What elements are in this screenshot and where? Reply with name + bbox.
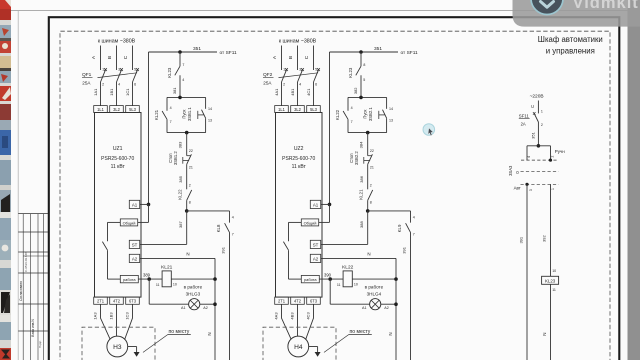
svg-text:ST: ST (313, 243, 319, 248)
svg-text:N: N (542, 333, 547, 336)
svg-text:и управления: и управления (546, 46, 595, 55)
terminal 4Т2 of UZ1 (110, 297, 124, 304)
terminal A2 of UZ1 (129, 254, 139, 262)
relay contact KL23 pins 8-5 (348, 52, 366, 97)
svg-text:~220В: ~220В (530, 94, 544, 100)
net N rail down to bottom (388, 258, 396, 360)
svg-text:4А3: 4А3 (274, 312, 279, 320)
svg-text:KL8: KL8 (216, 224, 221, 232)
node junction 351 / KL23 branch (178, 50, 182, 54)
dashed local enclosure around motor Н3 (82, 327, 155, 360)
terminal работа of UZ2 (301, 275, 319, 282)
node junction lamp to N rail (394, 302, 398, 306)
svg-text:С: С (304, 55, 310, 59)
svg-text:7: 7 (413, 232, 415, 236)
svg-text:1: 1 (102, 67, 104, 71)
svg-text:11 кВт: 11 кВт (292, 164, 307, 170)
wire 351 drop to A1/Общий of UZ2 (319, 52, 332, 222)
svg-text:Vidmkit: Vidmkit (573, 0, 639, 12)
viewer top edge line (11, 10, 640, 12)
stamp rotated text Согласовано (19, 281, 23, 301)
wire 386 stop button to KL21 (359, 164, 372, 189)
svg-text:С: С (123, 55, 129, 59)
wire 351 horizontal bus (от SF11) for UZ2 (330, 46, 419, 56)
motor Н3 (107, 336, 128, 357)
wire 391 from selector contact down (518, 184, 527, 360)
relay contact KL9 pins 4-7 (397, 211, 415, 237)
svg-text:N: N (388, 332, 393, 335)
wire phase А from 380V bus to QF2 pin 1 (272, 46, 285, 72)
wire 1С1 from QF1 pin 6 to UZ1 (125, 82, 136, 106)
title block side table (18, 214, 48, 360)
node junction 351 / KL23 branch (359, 50, 363, 54)
svg-text:2Т1: 2Т1 (278, 299, 286, 304)
terminal 5L3 of UZ2 (307, 106, 321, 113)
svg-text:381: 381 (172, 87, 177, 94)
wire phase С from 380V bus to QF1 pin 5 (123, 46, 136, 72)
wire phase В from 380V bus to QF1 pin 3 (107, 46, 120, 72)
svg-text:2: 2 (283, 82, 285, 86)
svg-text:3L2: 3L2 (113, 107, 121, 112)
svg-text:14: 14 (389, 107, 393, 111)
wire N from A2 terminal (140, 252, 215, 259)
svg-text:А1: А1 (181, 306, 186, 310)
svg-text:от SF11: от SF11 (401, 50, 419, 56)
svg-text:391: 391 (221, 246, 226, 253)
svg-text:351: 351 (531, 131, 536, 138)
selector switch 3SA3 common bar (527, 146, 555, 160)
internal run contact of UZ2 (Общий-работа) (283, 222, 301, 279)
svg-text:3HLG4: 3HLG4 (367, 291, 382, 296)
svg-text:383: 383 (178, 141, 183, 148)
svg-text:В: В (107, 56, 113, 59)
motor Н4 (288, 336, 309, 357)
svg-text:3HLG3: 3HLG3 (186, 291, 201, 296)
svg-text:4С3: 4С3 (306, 312, 311, 320)
svg-text:KL9: KL9 (397, 224, 402, 232)
svg-text:1L1: 1L1 (97, 107, 105, 112)
svg-text:6Т3: 6Т3 (129, 299, 137, 304)
svg-text:1В1: 1В1 (109, 88, 114, 96)
mouse cursor with highlight ring (423, 124, 435, 136)
wire phase В from 380V bus to QF2 pin 3 (288, 46, 301, 72)
wire 389 from работа terminal (138, 273, 162, 280)
watermark text Vidmkit (cut off at top) (573, 0, 639, 12)
relay contact KL21 pins 2-8 (359, 189, 373, 211)
svg-text:4В1: 4В1 (290, 88, 295, 96)
svg-text:2: 2 (370, 184, 372, 188)
wire phase C to SF11 (530, 101, 543, 114)
node junction lamp to N rail (213, 302, 217, 306)
wire 1С3 to motor Н3 (125, 304, 133, 339)
svg-text:6: 6 (134, 82, 136, 86)
svg-text:387: 387 (178, 220, 183, 227)
svg-text:N: N (186, 252, 189, 257)
svg-text:1L1: 1L1 (278, 107, 286, 112)
wire N from KL23 coil down (542, 284, 550, 360)
svg-text:7: 7 (182, 63, 184, 67)
svg-text:4В3: 4В3 (290, 312, 295, 320)
wire 392 from selector to KL23 coil (541, 184, 556, 276)
svg-text:к шинам ~380В: к шинам ~380В (279, 38, 317, 44)
terminal 1L1 of UZ2 (275, 106, 289, 113)
svg-text:Н3: Н3 (113, 344, 122, 351)
svg-text:3: 3 (529, 189, 533, 191)
wire 1В3 to motor Н3 (109, 304, 117, 336)
wire to relay contact KL9 (368, 210, 411, 212)
terminal A1 of UZ2 (310, 200, 320, 208)
svg-text:4: 4 (182, 78, 184, 82)
svg-text:7: 7 (170, 120, 172, 124)
svg-text:5: 5 (363, 78, 365, 82)
net N rail down to bottom (207, 258, 215, 360)
terminal 3L2 of UZ2 (291, 106, 305, 113)
stamp rotated text Взам инв.N (31, 319, 35, 337)
svg-text:3: 3 (118, 67, 120, 71)
svg-text:KL22: KL22 (335, 109, 340, 120)
wire 1В1 from QF1 pin 4 to UZ1 (109, 82, 120, 106)
svg-text:KL22: KL22 (342, 265, 354, 271)
svg-text:2Т1: 2Т1 (97, 299, 105, 304)
terminal 2Т1 of UZ2 (275, 297, 289, 304)
svg-text:Ручн: Ручн (555, 149, 565, 154)
svg-text:PSR25-600-70: PSR25-600-70 (282, 156, 315, 162)
stop push button Стоп 3SB1.2 pins 22-21 (NC) (168, 151, 193, 170)
wire 387 to ST terminal (140, 211, 187, 245)
svg-text:1С1: 1С1 (125, 88, 130, 96)
ground (protective earth) at motor Н3 (128, 347, 140, 357)
svg-text:8: 8 (189, 201, 191, 205)
relay contact KL8 pins 4-7 (216, 211, 234, 237)
svg-text:по месту: по месту (350, 329, 371, 335)
terminal 3L2 of UZ1 (110, 106, 124, 113)
svg-text:11 кВт: 11 кВт (111, 164, 126, 170)
selector 3SA3 position Авт (dashed) with closed-contact dot (514, 183, 559, 191)
svg-text:11: 11 (156, 283, 160, 287)
video thumbnail strip left edge (0, 0, 11, 360)
node junction stop chain / interlock branch (185, 209, 189, 213)
terminal 6Т3 of UZ1 (126, 297, 140, 304)
svg-text:Н4: Н4 (294, 344, 303, 351)
terminal A2 of UZ2 (310, 254, 320, 262)
svg-text:3SB2.2: 3SB2.2 (354, 151, 359, 165)
terminal работа of UZ1 (120, 275, 138, 282)
svg-text:1: 1 (283, 67, 285, 71)
svg-text:в работе: в работе (184, 284, 203, 289)
svg-text:С-9536.09.848: С-9536.09.848 (24, 252, 28, 272)
net ~220V supply label (530, 94, 544, 100)
wire 351 horizontal bus (от SF11) for UZ1 (149, 46, 238, 56)
svg-text:Взам инв.N: Взам инв.N (31, 319, 35, 337)
wire 382 KL23 to start button group (353, 87, 358, 94)
svg-text:388: 388 (359, 220, 364, 227)
label Шкаф автоматики и управления (538, 35, 603, 55)
svg-text:2: 2 (189, 184, 191, 188)
svg-text:390: 390 (324, 273, 332, 278)
svg-text:5: 5 (315, 67, 317, 71)
svg-text:Общий: Общий (304, 220, 317, 225)
svg-text:392: 392 (541, 234, 546, 241)
dashed local enclosure around motor Н4 (263, 327, 336, 360)
svg-text:A1: A1 (313, 203, 319, 208)
svg-text:6Т3: 6Т3 (310, 299, 318, 304)
cabinet dashed boundary Шкаф автоматики (60, 31, 610, 360)
wire to relay contact KL8 (187, 210, 230, 212)
svg-text:4: 4 (232, 215, 234, 219)
svg-text:UZ1: UZ1 (113, 146, 123, 152)
svg-text:8: 8 (370, 201, 372, 205)
stop push button Стоп 3SB2.2 pins 22-21 (NC) (349, 151, 374, 170)
wire 381 KL23 to start button group (172, 87, 177, 94)
start push button Пуск 3SB2.1 pins 14-13 (363, 97, 393, 132)
svg-text:5L3: 5L3 (310, 107, 318, 112)
svg-text:4: 4 (299, 82, 301, 86)
circuit breaker SF11 2А (519, 112, 543, 127)
relay contact KL22 (seal-in) pins 4-7 (335, 97, 352, 132)
wire 351 drop to A1/Общий of UZ1 (138, 52, 151, 222)
svg-text:Общий: Общий (123, 220, 136, 225)
svg-text:21: 21 (189, 166, 193, 170)
terminal 1L1 of UZ1 (94, 106, 108, 113)
svg-text:351: 351 (193, 46, 201, 52)
svg-text:386: 386 (359, 175, 364, 182)
svg-text:4: 4 (170, 106, 172, 110)
svg-text:385: 385 (178, 175, 183, 182)
svg-text:в работе: в работе (365, 284, 384, 289)
svg-text:21: 21 (370, 166, 374, 170)
start push button Пуск 3SB1.1 pins 14-13 (182, 97, 212, 132)
svg-text:А2: А2 (203, 306, 208, 310)
svg-text:22: 22 (370, 149, 374, 153)
svg-text:4А1: 4А1 (274, 88, 279, 96)
wire 1А1 from QF1 pin 2 to UZ1 (93, 82, 104, 106)
svg-text:А2: А2 (384, 306, 389, 310)
selector 3SA3 position Ручн (dashed) with closed-contact dot (521, 149, 565, 162)
svg-text:Подп.: Подп. (38, 340, 42, 348)
net ~380V bus feed label (QF1 circuit) (98, 38, 136, 44)
svg-text:3SB2.1: 3SB2.1 (368, 107, 373, 121)
ground (protective earth) at motor Н4 (309, 347, 321, 357)
svg-text:4Т2: 4Т2 (294, 299, 302, 304)
net ~380V bus feed label (QF2 circuit) (279, 38, 317, 44)
svg-text:N: N (207, 332, 212, 335)
wire 1А3 to motor Н3 (93, 304, 111, 339)
svg-text:351: 351 (374, 46, 382, 52)
svg-text:1: 1 (551, 188, 555, 190)
svg-text:Авт: Авт (514, 185, 521, 190)
label по месту with leader (324, 329, 372, 353)
stamp rotated text document number (24, 252, 28, 272)
terminal 2Т1 of UZ1 (94, 297, 108, 304)
svg-text:1В3: 1В3 (109, 312, 114, 320)
svg-text:4Т2: 4Т2 (113, 299, 121, 304)
relay coil KL21 pins 11-10 (156, 265, 215, 287)
terminal 6Т3 of UZ2 (307, 297, 321, 304)
svg-text:A2: A2 (132, 257, 138, 262)
wire 388 to ST terminal (321, 211, 368, 245)
relay contact KL23 pins 7-4 (167, 52, 185, 97)
svg-text:11: 11 (337, 283, 341, 287)
svg-text:по месту: по месту (169, 329, 190, 335)
svg-text:2А: 2А (521, 121, 526, 126)
svg-text:KL23: KL23 (348, 67, 353, 78)
stamp rotated text Подп. и дата (38, 340, 42, 348)
svg-text:1А1: 1А1 (93, 88, 98, 96)
svg-text:KL21: KL21 (154, 109, 159, 120)
svg-text:3SB1.1: 3SB1.1 (187, 107, 192, 121)
node top of start parallel group (167, 96, 206, 100)
svg-text:В: В (288, 56, 294, 59)
svg-text:3SB1.2: 3SB1.2 (173, 151, 178, 165)
node junction работа / lamp branch (328, 277, 332, 281)
svg-text:UZ2: UZ2 (294, 146, 304, 152)
node top of start parallel group (348, 96, 387, 100)
svg-text:KL23: KL23 (545, 279, 556, 284)
svg-text:KL21: KL21 (161, 265, 173, 271)
wire 385 stop button to KL22 (178, 164, 191, 189)
selector 3SA3 label and position 0 (508, 165, 559, 176)
terminal ST of UZ2 (310, 240, 320, 248)
svg-text:4: 4 (413, 215, 415, 219)
svg-text:2: 2 (550, 156, 554, 158)
svg-text:10: 10 (173, 283, 177, 287)
svg-text:25А: 25А (263, 80, 272, 85)
svg-text:KL23: KL23 (167, 67, 172, 78)
soft starter UZ2 PSR25-600-70 11kW (276, 113, 323, 298)
node bottom of start parallel group (348, 131, 387, 135)
wire 384 to stop button (359, 133, 374, 156)
svg-text:6: 6 (315, 82, 317, 86)
svg-text:10: 10 (552, 269, 556, 273)
svg-text:ST: ST (132, 243, 138, 248)
svg-text:N: N (367, 252, 370, 257)
svg-text:A1: A1 (132, 203, 138, 208)
wire 351 from SF11 to selector (531, 122, 539, 146)
svg-text:A2: A2 (313, 257, 319, 262)
circuit breaker QF2 25А 3-pole (263, 68, 320, 85)
svg-text:22: 22 (189, 149, 193, 153)
svg-text:KL22: KL22 (178, 189, 183, 200)
wire 4А3 to motor Н4 (274, 304, 292, 339)
svg-text:1А3: 1А3 (93, 312, 98, 320)
node junction coil to N rail (394, 277, 398, 281)
wire 4В1 from QF2 pin 4 to UZ2 (290, 82, 301, 106)
svg-text:Шкаф автоматики: Шкаф автоматики (538, 35, 603, 44)
svg-text:работа: работа (304, 277, 317, 282)
terminal ST of UZ1 (129, 240, 139, 248)
relay contact KL21 (seal-in) pins 4-7 (154, 97, 171, 132)
svg-text:А1: А1 (362, 306, 367, 310)
svg-text:4: 4 (351, 106, 353, 110)
wire 390 from работа terminal (319, 273, 343, 280)
svg-text:13: 13 (389, 118, 393, 122)
terminal Общий of UZ2 (301, 219, 318, 226)
terminal 5L3 of UZ1 (126, 106, 140, 113)
wire phase С from 380V bus to QF2 pin 5 (304, 46, 317, 72)
svg-text:25А: 25А (82, 80, 91, 85)
wire 4С3 to motor Н4 (306, 304, 314, 339)
node junction stop chain / interlock branch (366, 209, 370, 213)
svg-text:работа: работа (123, 277, 136, 282)
soft starter UZ1 PSR25-600-70 11kW (95, 113, 142, 298)
svg-text:3L2: 3L2 (294, 107, 302, 112)
internal run contact of UZ1 (Общий-работа) (102, 222, 120, 279)
svg-text:Согласовано: Согласовано (19, 281, 23, 301)
watermark overlay panel top right (513, 0, 640, 27)
svg-text:7: 7 (351, 120, 353, 124)
svg-text:от SF11: от SF11 (220, 50, 238, 56)
svg-text:4С1: 4С1 (306, 88, 311, 96)
svg-text:11: 11 (552, 288, 556, 292)
svg-text:8: 8 (363, 63, 365, 67)
wire 4В3 to motor Н4 (290, 304, 298, 336)
svg-text:14: 14 (208, 107, 212, 111)
svg-text:SF11: SF11 (519, 113, 530, 118)
svg-text:5L3: 5L3 (129, 107, 137, 112)
svg-text:3SA3: 3SA3 (508, 165, 513, 176)
svg-text:2: 2 (541, 123, 543, 127)
node junction 351 at selector (537, 144, 541, 148)
wire N from A2 terminal (321, 252, 396, 259)
wire 391 from KL9 down (402, 232, 411, 360)
relay coil KL23 pins 10-11 (542, 276, 559, 292)
svg-text:4: 4 (527, 156, 531, 158)
label по месту with leader (143, 329, 191, 353)
svg-text:5: 5 (134, 67, 136, 71)
svg-text:389: 389 (143, 273, 151, 278)
node bottom of start parallel group (167, 131, 206, 135)
svg-text:391: 391 (518, 236, 523, 243)
wire phase А from 380V bus to QF1 pin 1 (91, 46, 104, 72)
svg-text:2: 2 (102, 82, 104, 86)
svg-text:PSR25-600-70: PSR25-600-70 (101, 156, 134, 162)
svg-text:4: 4 (118, 82, 120, 86)
indicator lamp 3HLG3 (в работе) pins A1-A2 (149, 279, 215, 310)
svg-text:3: 3 (299, 67, 301, 71)
circuit breaker QF1 25А 3-pole (82, 68, 139, 85)
wire 4С1 from QF2 pin 6 to UZ2 (306, 82, 317, 106)
svg-text:С: С (530, 105, 535, 108)
wire 391 from KL8 down (221, 232, 230, 360)
terminal Общий of UZ1 (120, 219, 137, 226)
watermark logo circle with chevron (531, 0, 563, 15)
svg-text:1С3: 1С3 (125, 312, 130, 320)
wire 383 to stop button (178, 133, 193, 156)
svg-text:382: 382 (353, 87, 358, 94)
paper left edge line (17, 11, 19, 360)
node junction работа / lamp branch (147, 277, 151, 281)
wire 4А1 from QF2 pin 2 to UZ2 (274, 82, 285, 106)
svg-text:1: 1 (541, 110, 543, 114)
indicator lamp 3HLG4 (в работе) pins A1-A2 (330, 279, 396, 310)
terminal 4Т2 of UZ2 (291, 297, 305, 304)
svg-text:391: 391 (402, 246, 407, 253)
relay coil KL22 pins 11-10 (337, 265, 396, 287)
svg-text:13: 13 (208, 118, 212, 122)
svg-text:384: 384 (359, 141, 364, 148)
svg-text:KL21: KL21 (359, 189, 364, 200)
terminal A1 of UZ1 (129, 200, 139, 208)
svg-text:7: 7 (232, 232, 234, 236)
video player grey side band (621, 0, 640, 360)
svg-text:10: 10 (354, 283, 358, 287)
node junction coil to N rail (213, 277, 217, 281)
svg-text:к шинам ~380В: к шинам ~380В (98, 38, 136, 44)
relay contact KL22 pins 2-8 (178, 189, 192, 211)
